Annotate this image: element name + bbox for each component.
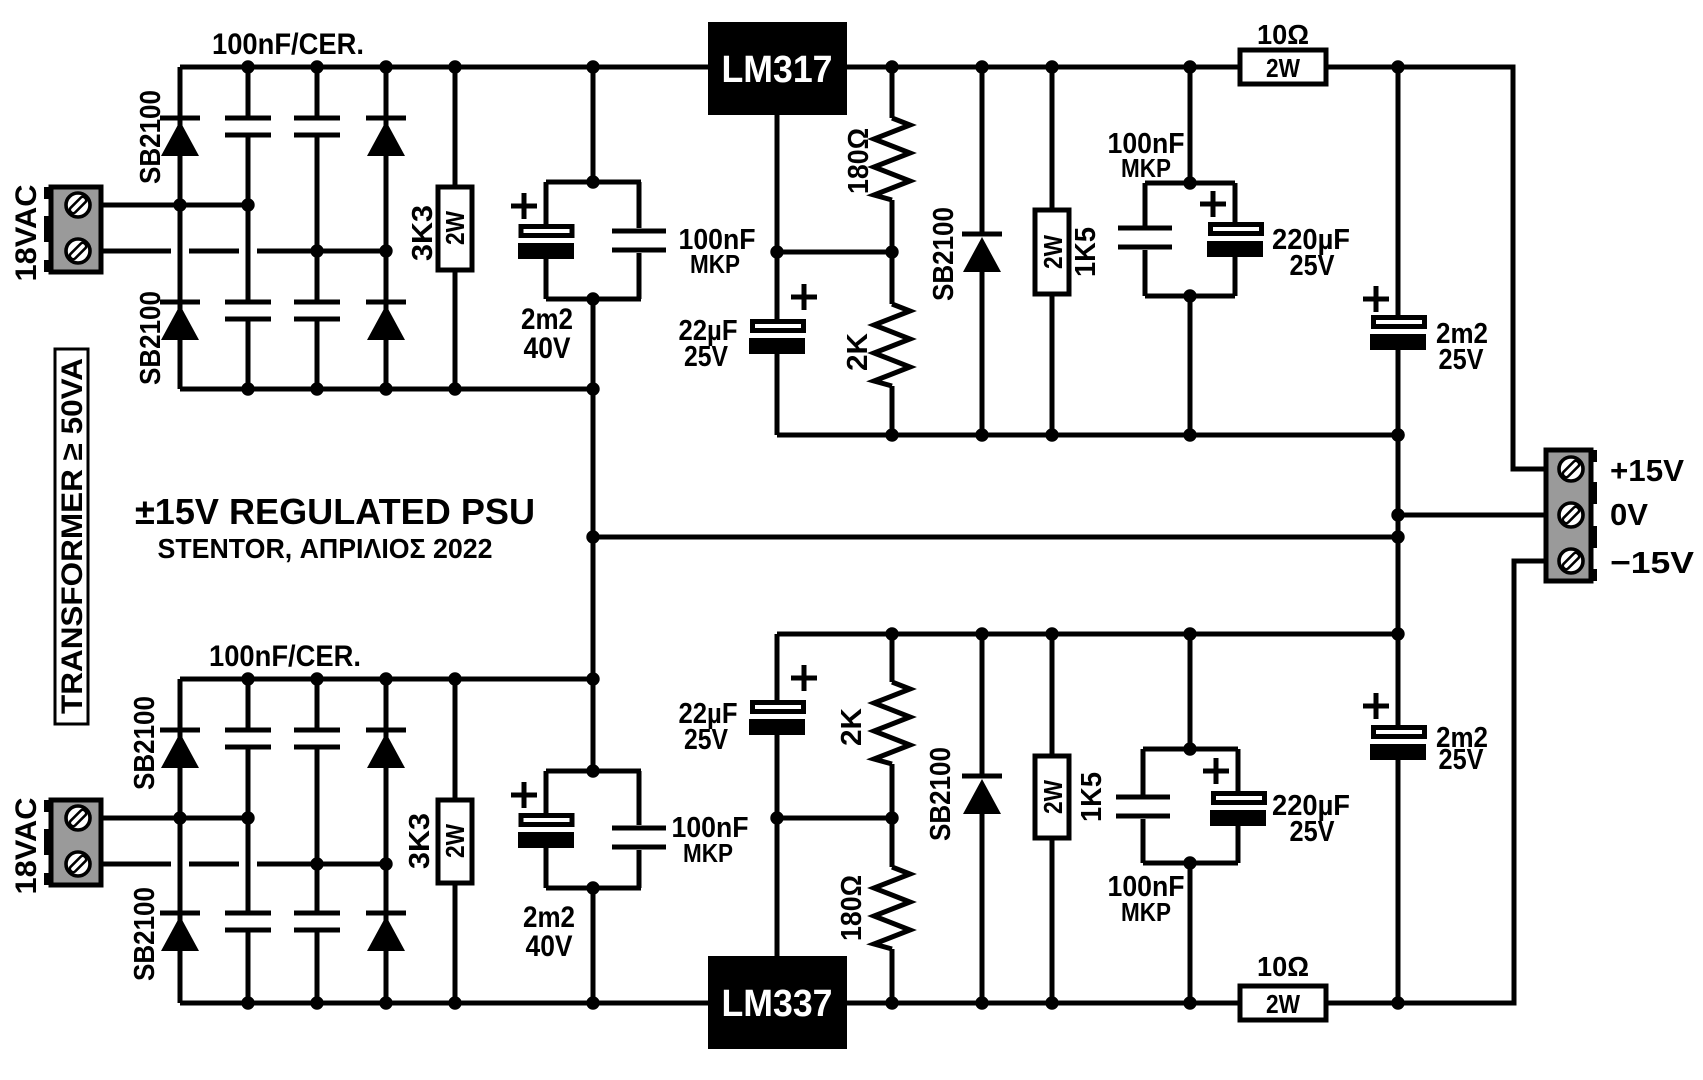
resistor R3 2K xyxy=(874,252,910,435)
junction dots output filter loop (bottom) xyxy=(1183,742,1196,869)
capacitor C17 22uF 25V electrolytic xyxy=(749,634,805,818)
svg-text:18VAC: 18VAC xyxy=(10,798,43,895)
plus sign C5 xyxy=(511,193,537,219)
resistor R4 1K5 2W xyxy=(1035,67,1069,435)
svg-text:3K3: 3K3 xyxy=(407,205,439,261)
label 100nF MKP (C16) xyxy=(672,812,749,868)
capacitor 100nF ceramic C4 xyxy=(294,251,340,389)
capacitor C20 2m2 25V electrolytic xyxy=(1370,728,1426,1004)
wire bridge2 diode column right xyxy=(384,679,389,1003)
svg-text:10Ω: 10Ω xyxy=(1257,19,1309,50)
note box TRANSFORMER >= 50VA xyxy=(55,349,89,724)
wire -DC bottom rail with -15V rise to output xyxy=(180,561,1546,1003)
svg-text:1K5: 1K5 xyxy=(1076,772,1108,822)
svg-text:SB2100: SB2100 xyxy=(925,747,957,841)
label 22uF 25V (C7) xyxy=(679,315,738,373)
svg-text:2W: 2W xyxy=(1038,235,1068,269)
svg-text:40V: 40V xyxy=(524,332,571,365)
svg-text:25V: 25V xyxy=(684,341,729,373)
wire U2 ADJ pin xyxy=(775,818,780,956)
svg-text:180Ω: 180Ω xyxy=(836,875,868,941)
plus sign C20 xyxy=(1363,693,1389,719)
wire output filter loop (top) xyxy=(1145,67,1235,435)
plus sign C19 xyxy=(1203,758,1229,784)
diode D7 SB2100 xyxy=(160,913,200,951)
label 2m2 40V (C15) xyxy=(523,901,575,963)
svg-text:2K: 2K xyxy=(842,333,874,371)
wire AC4 from 18VAC (bottom) bottom screw (hops over diode columns) xyxy=(101,862,386,867)
capacitor C16 100nF MKP xyxy=(612,771,666,888)
wire bridge1 diode column right xyxy=(384,67,389,389)
svg-text:2K: 2K xyxy=(836,708,868,746)
terminal block 18VAC (top) xyxy=(44,187,101,272)
junction dots bridge2 top rail xyxy=(241,672,461,685)
wire AC2 from 18VAC bottom screw (hops over diode columns) xyxy=(101,249,386,254)
svg-text:25V: 25V xyxy=(684,724,729,756)
capacitor 100nF ceramic C14 xyxy=(294,864,340,1003)
wire regulator section bottom rail (top half) xyxy=(777,433,1398,438)
capacitor 100nF ceramic C11 xyxy=(225,679,271,818)
label 2m2 25V (C10) xyxy=(1436,318,1488,376)
wire reservoir loop (top) xyxy=(546,182,641,299)
wire regulator section top rail (bottom half) xyxy=(777,632,1398,637)
wire bridge2 top rail xyxy=(180,677,593,682)
svg-text:−15V: −15V xyxy=(1610,545,1694,580)
svg-text:MKP: MKP xyxy=(1121,153,1171,183)
plus sign C9 xyxy=(1200,191,1226,217)
wire +DC top rail with +15V drop to output xyxy=(180,67,1546,469)
capacitor 100nF ceramic C1 xyxy=(225,67,271,205)
label 220uF 25V (C19) xyxy=(1272,790,1350,848)
diode D5 SB2100 xyxy=(962,67,1002,435)
wire 0V line xyxy=(593,535,1398,540)
capacitor C6 100nF MKP xyxy=(612,182,666,299)
label 100nF MKP (C6) xyxy=(679,224,756,279)
svg-text:2W: 2W xyxy=(1038,780,1068,814)
resistor R6 3K3 2W xyxy=(438,679,472,1003)
junction dots regulator top rail (bottom half) xyxy=(885,627,1196,640)
capacitor C15 2m2 40V electrolytic xyxy=(518,771,574,888)
svg-text:STENTOR, ΑΠΡΙΛΙΟΣ 2022: STENTOR, ΑΠΡΙΛΙΟΣ 2022 xyxy=(158,533,493,564)
wire ADJ node horizontal xyxy=(777,250,892,255)
wire reservoir loop (bottom) xyxy=(546,771,641,888)
svg-text:2W: 2W xyxy=(440,824,470,858)
label 22uF 25V (C17) xyxy=(679,698,738,756)
resistor R9 1K5 2W xyxy=(1035,634,1069,1003)
capacitor 100nF ceramic C3 xyxy=(294,67,340,251)
capacitor 100nF ceramic C2 xyxy=(225,205,271,389)
svg-text:SB2100: SB2100 xyxy=(129,887,161,981)
capacitor 100nF ceramic C13 xyxy=(294,679,340,864)
svg-text:100nF/CER.: 100nF/CER. xyxy=(209,640,361,673)
label 2m2 25V (C20) xyxy=(1436,722,1488,776)
capacitor 100nF ceramic C12 xyxy=(225,818,271,1003)
junction dots AC2 node xyxy=(310,244,392,257)
wire bridge2 diode column left xyxy=(178,679,183,1003)
capacitor C9 220uF 25V electrolytic xyxy=(1207,183,1263,296)
resistor R8 180R xyxy=(874,818,910,1003)
svg-text:LM317: LM317 xyxy=(722,49,833,91)
wire ADJ node horizontal (bottom) xyxy=(777,816,892,821)
capacitor C5 2m2 40V electrolytic xyxy=(518,182,574,299)
svg-text:SB2100: SB2100 xyxy=(135,291,167,385)
resistor R7 2K xyxy=(874,634,910,818)
diode D3 SB2100 xyxy=(366,118,406,156)
junction dots AC4 node xyxy=(310,857,392,870)
svg-text:SB2100: SB2100 xyxy=(135,90,167,184)
junction dots output filter loop (top) xyxy=(1183,176,1196,302)
wire center spine x593 xyxy=(591,67,596,1003)
junction dots ADJ node xyxy=(770,245,898,258)
svg-text:1K5: 1K5 xyxy=(1070,227,1102,277)
svg-text:TRANSFORMER ≥ 50VA: TRANSFORMER ≥ 50VA xyxy=(56,358,89,714)
diode D1 SB2100 xyxy=(160,118,200,156)
svg-text:MKP: MKP xyxy=(1121,897,1171,927)
wire output filter loop (bottom) xyxy=(1143,634,1238,1003)
wire U1 ADJ pin xyxy=(775,115,780,252)
svg-text:MKP: MKP xyxy=(683,838,733,868)
junction dots regulator bottom rail (top half) xyxy=(885,428,1404,441)
svg-text:40V: 40V xyxy=(526,930,573,963)
junction dots on +DC top rail xyxy=(241,60,1404,73)
wire AC1 from 18VAC top screw xyxy=(101,203,248,208)
svg-text:18VAC: 18VAC xyxy=(10,185,43,282)
svg-text:2W: 2W xyxy=(1266,989,1300,1019)
svg-text:MKP: MKP xyxy=(690,249,740,279)
svg-text:2W: 2W xyxy=(1266,53,1300,83)
svg-text:25V: 25V xyxy=(1439,344,1485,376)
plus sign C7 xyxy=(791,284,817,310)
diode D9 SB2100 xyxy=(366,913,406,951)
diode D2 SB2100 xyxy=(160,302,200,340)
regulator U2 LM337 xyxy=(708,956,847,1049)
diode D6 SB2100 xyxy=(160,730,200,768)
wire bridge1 bottom rail xyxy=(180,387,593,392)
svg-text:2W: 2W xyxy=(440,211,470,245)
svg-text:10Ω: 10Ω xyxy=(1257,951,1309,982)
diode D8 SB2100 xyxy=(366,730,406,768)
svg-text:0V: 0V xyxy=(1610,497,1648,532)
junction dots AC1 node xyxy=(173,198,254,211)
terminal block output xyxy=(1546,450,1597,581)
plus sign C10 xyxy=(1363,286,1389,312)
diode D10 SB2100 xyxy=(962,634,1002,1003)
svg-text:3K3: 3K3 xyxy=(404,813,436,869)
junction dots on -DC bottom rail xyxy=(241,996,1196,1009)
label 100nF MKP (C8) xyxy=(1108,128,1185,183)
svg-text:25V: 25V xyxy=(1290,250,1336,282)
label 100nF MKP (C18) xyxy=(1108,871,1185,927)
capacitor C18 100nF MKP xyxy=(1116,749,1170,863)
svg-text:+15V: +15V xyxy=(1610,453,1684,488)
junction dots 0V node x1398 xyxy=(1391,428,1404,1009)
diode D4 SB2100 xyxy=(366,302,406,340)
capacitor C19 220uF 25V electrolytic xyxy=(1210,749,1266,863)
svg-text:180Ω: 180Ω xyxy=(843,128,875,194)
wire 0V to output terminal xyxy=(1398,513,1546,518)
junction dots AC3 node xyxy=(173,811,254,824)
svg-text:LM337: LM337 xyxy=(722,983,833,1025)
wire bridge1 diode column left xyxy=(178,67,183,389)
junction dots center spine xyxy=(586,175,599,1009)
junction dots bridge1 bottom rail xyxy=(241,382,599,395)
wire AC3 from 18VAC (bottom) top screw xyxy=(101,816,248,821)
svg-text:25V: 25V xyxy=(1439,744,1485,776)
capacitor C7 22uF 25V electrolytic xyxy=(749,252,805,435)
resistor R1 3K3 2W xyxy=(438,67,472,389)
resistor R2 180R xyxy=(874,67,910,252)
plus sign C17 xyxy=(791,665,817,691)
svg-text:SB2100: SB2100 xyxy=(928,207,960,301)
plus sign C15 xyxy=(511,782,537,808)
regulator U1 LM317 xyxy=(708,22,847,115)
svg-text:SB2100: SB2100 xyxy=(129,696,161,790)
svg-text:100nF/CER.: 100nF/CER. xyxy=(212,28,364,61)
label 220uF 25V (C9) xyxy=(1272,224,1350,282)
resistor R10 10R 2W xyxy=(1240,986,1326,1020)
svg-text:±15V REGULATED PSU: ±15V REGULATED PSU xyxy=(135,491,535,532)
resistor R5 10R 2W xyxy=(1240,50,1326,84)
terminal block 18VAC (bottom) xyxy=(44,800,101,885)
capacitor C8 100nF MKP xyxy=(1118,183,1172,296)
junction dots ADJ node (bottom) xyxy=(770,811,898,824)
label 2m2 40V (C5) xyxy=(521,303,573,365)
capacitor C10 2m2 25V electrolytic xyxy=(1370,67,1426,725)
svg-text:25V: 25V xyxy=(1290,816,1336,848)
